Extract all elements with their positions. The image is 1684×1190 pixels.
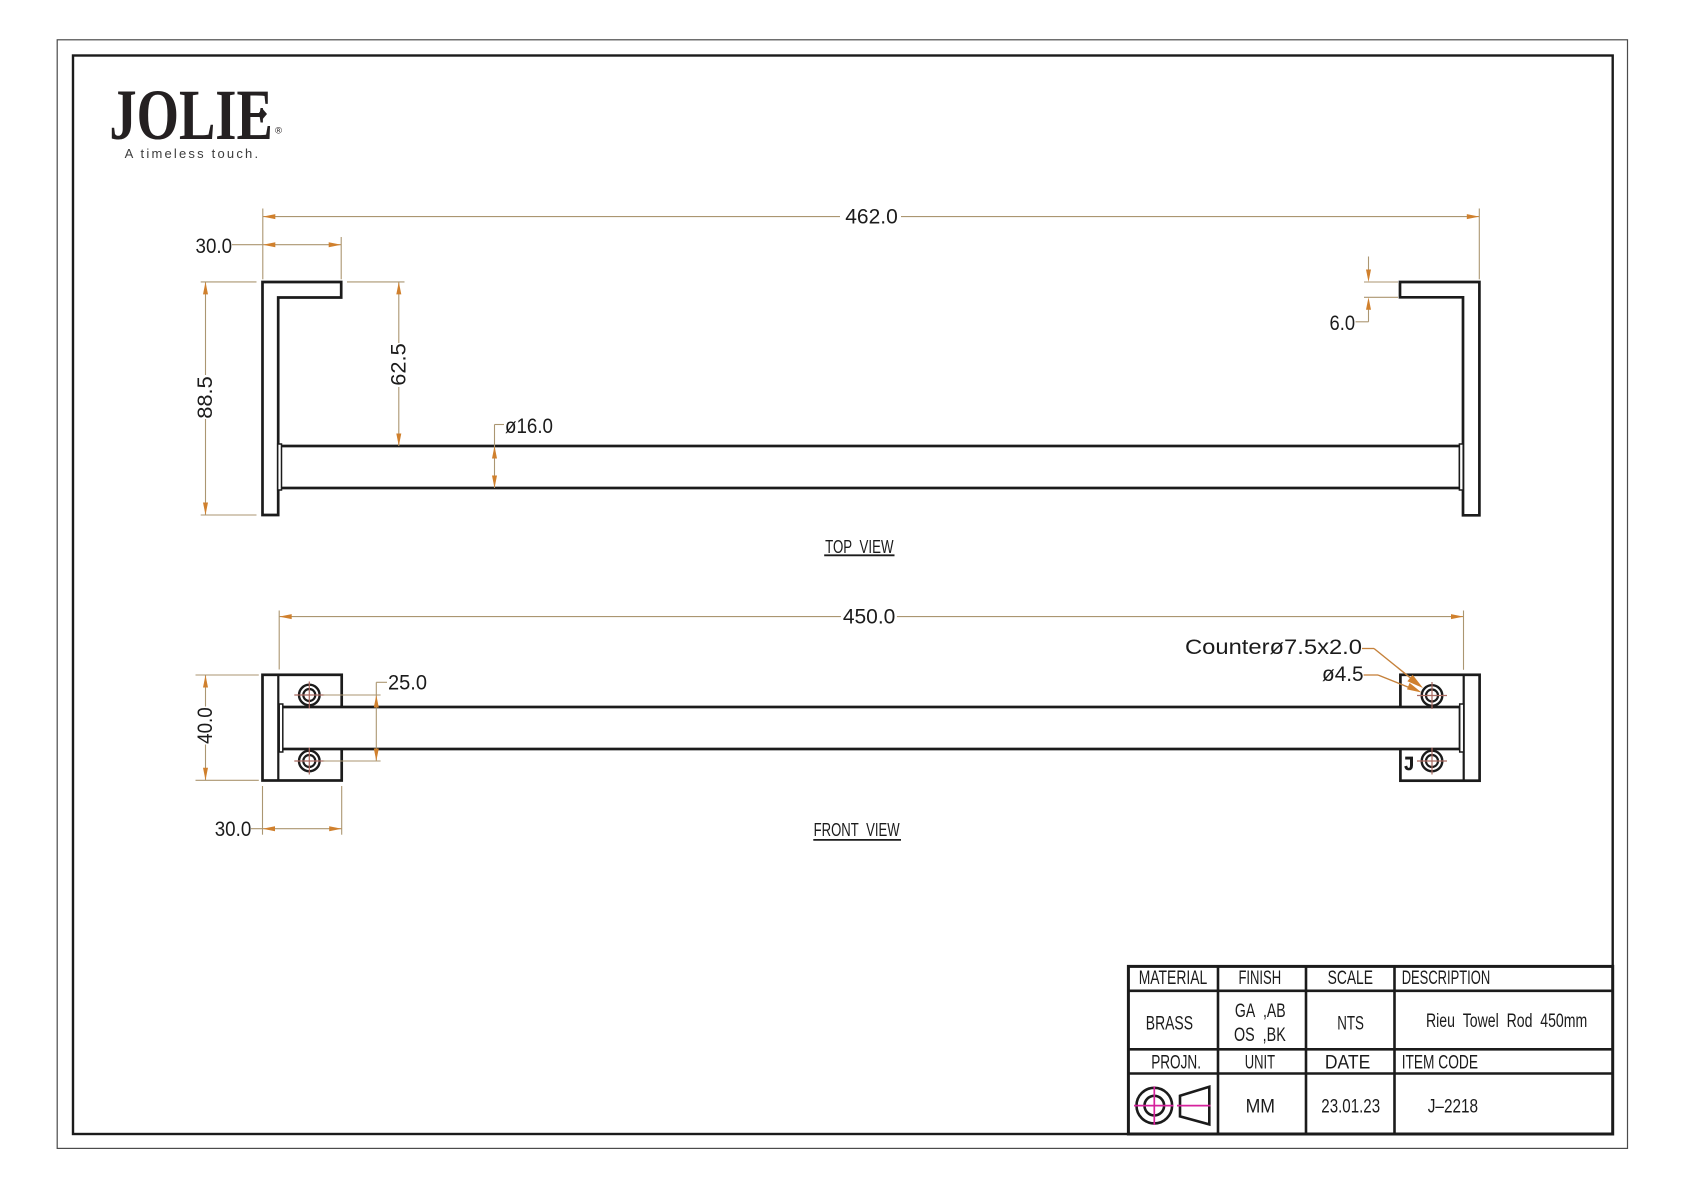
svg-text:25.0: 25.0 (388, 671, 427, 694)
svg-text:MM: MM (1246, 1095, 1275, 1117)
projection symbol cone axis (1177, 1105, 1211, 1107)
dim 62.5 bottom arrow (396, 433, 401, 446)
dim 450.0 right extension line (1462, 611, 1464, 670)
dim O16.0 leader vertical (494, 424, 496, 488)
title block outer frame (1128, 966, 1612, 1134)
dim 6.0 lower extension line (1364, 296, 1398, 298)
projection symbol crosshair vertical (1153, 1086, 1155, 1125)
title block row line 2 (1128, 1048, 1612, 1051)
svg-text:DESCRIPTION: DESCRIPTION (1402, 967, 1491, 989)
svg-text:DATE: DATE (1325, 1052, 1370, 1074)
dim 6.0 lower arrow line (1368, 309, 1370, 322)
dim O16.0 arrow at rod top (492, 446, 497, 459)
svg-text:23.01.23: 23.01.23 (1321, 1095, 1380, 1117)
dim 462.0 line left segment (263, 216, 840, 218)
dim 462.0 right arrow (1467, 214, 1480, 219)
svg-text:GA ,AB: GA ,AB (1235, 1000, 1286, 1022)
dim 30.0 front line (251, 828, 342, 830)
leader CounterO7.5x2.0 stub (1362, 648, 1374, 650)
svg-text:SCALE: SCALE (1328, 967, 1373, 989)
front view: left bracket upper screw hole (294, 681, 324, 708)
dim 88.5 bottom arrow (203, 502, 208, 515)
front view: right rod collar (1460, 704, 1464, 752)
svg-text:FINISH: FINISH (1238, 967, 1281, 989)
front view: towel rod (282, 707, 1460, 749)
top view: right wall bracket (L-profile) (1400, 282, 1479, 515)
svg-text:A timeless touch.: A timeless touch. (125, 146, 261, 161)
front view: right bracket inner edge (1463, 675, 1465, 781)
dim 88.5 line upper segment (205, 282, 207, 375)
dim 462.0 right extension line (1478, 209, 1480, 280)
dim 30.0 front left arrow (262, 826, 275, 831)
dim 30.0 top right arrow (329, 242, 342, 247)
title block column line 1 (1217, 966, 1220, 1134)
title block column line 3 (1393, 966, 1396, 1134)
svg-text:88.5: 88.5 (194, 376, 217, 419)
dim 25.0 upper arrow (374, 695, 379, 708)
svg-text:MATERIAL: MATERIAL (1139, 967, 1208, 989)
svg-text:ø16.0: ø16.0 (505, 415, 553, 438)
svg-text:FRONT VIEW: FRONT VIEW (814, 820, 900, 840)
dim 25.0 line (375, 682, 377, 761)
dim 450.0 right arrow (1451, 614, 1464, 619)
svg-text:Rieu Towel Rod 450mm: Rieu Towel Rod 450mm (1426, 1010, 1587, 1032)
dim 462.0 left arrow (263, 214, 276, 219)
dim 25.0 upper extension line (323, 694, 381, 696)
dim 30.0 front right extension line (341, 786, 343, 835)
dim 62.5 line upper segment (398, 282, 400, 343)
svg-text:450.0: 450.0 (843, 606, 896, 629)
dim 62.5 line lower segment (398, 387, 400, 446)
top view: towel rod (O16 bar) (280, 446, 1460, 488)
title block column line 2 (1305, 966, 1308, 1134)
dim 30.0 front right arrow (329, 826, 342, 831)
dim 88.5 line lower segment (205, 419, 207, 515)
dim 88.5 top extension line (201, 281, 257, 283)
projection symbol inner circle (1144, 1096, 1164, 1116)
dim 6.0 upper arrow line (1368, 257, 1370, 272)
dim 40.0 top extension line (195, 674, 258, 676)
dim O16.0 arrow at rod bottom (492, 475, 497, 488)
dim 62.5 top arrow (396, 282, 401, 295)
front view: right bracket upper screw hole (1417, 682, 1447, 709)
title block row line 1 (1128, 990, 1612, 993)
dim 88.5 top arrow (203, 282, 208, 295)
svg-text:462.0: 462.0 (845, 206, 898, 229)
title block row line 3 (1128, 1072, 1612, 1075)
svg-text:30.0: 30.0 (196, 235, 233, 258)
dim 462.0 line right segment (901, 216, 1479, 218)
dim 40.0 line upper segment (204, 675, 206, 707)
svg-text:ITEM CODE: ITEM CODE (1402, 1052, 1478, 1074)
top view: right rod collar (1459, 444, 1463, 490)
leader O4.5 stub (1364, 674, 1378, 676)
leader O4.5 arrow (1407, 683, 1422, 693)
projection symbol outer circle (1136, 1088, 1172, 1124)
leader CounterO7.5x2.0 arrow (1407, 675, 1423, 688)
dim 6.0 text connector (1356, 321, 1369, 323)
leader O4.5 line (1378, 675, 1414, 690)
svg-text:40.0: 40.0 (194, 707, 217, 744)
leader CounterO7.5x2.0 line (1374, 649, 1416, 683)
dim 450.0 left arrow (279, 614, 292, 619)
top view: left wall bracket (L-profile) (263, 282, 342, 515)
front view: left bracket lower screw hole (294, 747, 324, 774)
dim 25.0 lower extension line (323, 760, 381, 762)
svg-text:UNIT: UNIT (1245, 1052, 1275, 1074)
front view: right bracket lower screw hole (1417, 748, 1447, 775)
logo diamond on E (258, 109, 267, 119)
svg-text:BRASS: BRASS (1146, 1013, 1193, 1035)
dim 30.0 top right extension line (340, 237, 342, 279)
dim 6.0 upper extension line (1364, 281, 1398, 283)
dim 62.5 top extension line (347, 281, 405, 283)
dim 25.0 lower arrow (374, 748, 379, 761)
dim 25.0 text connector (376, 681, 387, 683)
dim O16.0 leader horizontal (495, 423, 505, 425)
dim 40.0 bottom extension line (195, 779, 258, 781)
svg-text:6.0: 6.0 (1330, 312, 1356, 335)
label TOP VIEW underline (824, 554, 894, 556)
svg-text:JOLIE: JOLIE (109, 75, 272, 155)
svg-text:30.0: 30.0 (215, 818, 252, 841)
svg-text:NTS: NTS (1337, 1013, 1364, 1035)
dim 450.0 left extension line (278, 610, 280, 669)
dim 6.0 lower arrow (1366, 297, 1371, 310)
front view: left rod collar (279, 704, 283, 752)
dim 450.0 line left segment (279, 616, 841, 618)
front view: right bracket plate (1400, 675, 1479, 781)
svg-text:J–2218: J–2218 (1428, 1095, 1478, 1117)
dim 462.0 left extension line (262, 208, 264, 279)
svg-text:OS ,BK: OS ,BK (1234, 1024, 1286, 1046)
dim 88.5 bottom extension line (201, 514, 257, 516)
svg-text:Counterø7.5x2.0: Counterø7.5x2.0 (1185, 636, 1362, 659)
svg-text:PROJN.: PROJN. (1151, 1052, 1201, 1074)
top view: left rod collar (278, 444, 282, 490)
svg-text:®: ® (275, 125, 282, 136)
projection symbol cone (1180, 1087, 1209, 1125)
dim 450.0 line right segment (897, 616, 1464, 618)
svg-text:62.5: 62.5 (387, 343, 410, 386)
front view: left bracket plate (262, 675, 341, 781)
label FRONT VIEW underline (813, 839, 901, 841)
dim 30.0 top line (232, 244, 341, 246)
dim 40.0 line lower segment (204, 744, 206, 780)
dim 40.0 bottom arrow (203, 768, 208, 781)
dim 30.0 front left extension line (261, 786, 263, 835)
dim 40.0 top arrow (203, 675, 208, 688)
front view: left bracket inner edge (277, 675, 279, 781)
dim 30.0 top left arrow (263, 242, 276, 247)
dim 6.0 upper arrow (1366, 270, 1371, 283)
projection symbol crosshair horizontal (1134, 1105, 1174, 1107)
svg-text:ø4.5: ø4.5 (1322, 663, 1364, 686)
svg-text:TOP VIEW: TOP VIEW (825, 537, 893, 557)
front view: J stamp mark (1404, 757, 1413, 771)
